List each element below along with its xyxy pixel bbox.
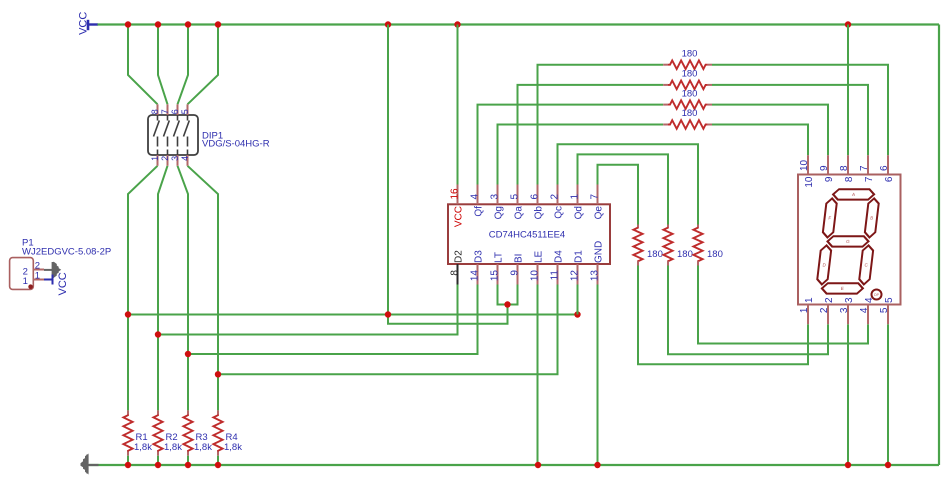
P1 origin dot [28,284,33,289]
svg-text:1: 1 [799,307,810,313]
wire bottom ground rail [89,464,939,466]
svg-text:7: 7 [160,109,170,114]
svg-text:2: 2 [824,297,835,303]
wire IC pin Qa to resistor row2 [518,85,664,185]
svg-text:Qa: Qa [514,206,525,220]
junction node B (158,334.5) [155,331,161,337]
wire P1 pin1 to VCC flag [44,279,53,281]
svg-text:2: 2 [160,156,170,161]
display segments A-G [816,189,881,293]
resistor R7 180 (vertical) [693,225,702,266]
svg-text:Qe: Qe [594,206,605,220]
svg-text:180: 180 [682,69,698,80]
svg-text:1: 1 [23,276,28,287]
svg-text:7: 7 [590,194,601,200]
junction on VCC rail x=218 [215,21,221,27]
wire IC pin LT down [498,284,508,304]
svg-text:3: 3 [844,297,855,303]
wire resistor row 1 to display pin [712,65,888,156]
wire IC pin Qe to resistor R5 top [598,165,639,225]
wire display pin 3 to ground rail [847,324,849,465]
svg-text:16: 16 [450,188,461,200]
junction on ground rail x=597.5 [594,462,600,468]
wire net D3 row (y=354) node x=188 to IC pin D3 [188,284,478,354]
svg-text:11: 11 [550,270,561,281]
svg-text:14: 14 [470,270,481,282]
svg-text:6: 6 [879,165,890,171]
7-segment display U2 [798,155,901,324]
junction on ground rail x=538 [535,462,541,468]
svg-text:VDG/S-04HG-R: VDG/S-04HG-R [202,138,270,149]
svg-text:1,8k: 1,8k [134,442,152,453]
svg-text:180: 180 [707,249,723,260]
svg-text:1,8k: 1,8k [194,442,212,453]
wire IC pin Qb to resistor row1 [538,65,664,185]
svg-text:5: 5 [884,297,895,303]
wire DIP1 pin 5 to VCC rail [188,25,219,105]
junction on ground rail x=218 [215,462,221,468]
svg-text:4: 4 [859,307,870,313]
wire net D2 row (y=334.5) node x=158 to IC pin D2 [158,285,458,335]
display DP circle [872,290,882,300]
junction on ground rail x=188 [185,462,191,468]
svg-text:6: 6 [884,176,895,182]
svg-text:180: 180 [677,249,693,260]
svg-text:8: 8 [450,270,461,276]
junction on ground rail x=888 [885,462,891,468]
wire resistor row 4 to display pin [712,125,808,156]
resistor R6 180 (vertical) [663,225,672,266]
svg-text:5: 5 [180,109,190,114]
svg-text:D4: D4 [554,250,565,263]
junction node D (218,374.3) [215,371,221,377]
junction node C (188,354) [185,351,191,357]
wire DIP1 pin 4 down to node column x=218 [188,166,219,411]
svg-text:VCC: VCC [454,206,465,227]
connector P1 WJ2EDGVC-5.08-2P [10,258,44,290]
wire IC pin D1 down to D1 row [577,284,579,314]
svg-text:VCC: VCC [57,272,69,295]
svg-text:D3: D3 [474,250,485,263]
svg-text:1: 1 [804,297,815,303]
svg-text:BI: BI [514,254,525,263]
ground symbol (bottom-left) [81,455,99,474]
svg-text:180: 180 [647,249,663,260]
resistor R4h 180 (row 4) [663,120,712,129]
svg-text:WJ2EDGVC-5.08-2P: WJ2EDGVC-5.08-2P [22,247,111,258]
wire IC pin Qg to resistor row4 [498,125,664,185]
svg-text:2: 2 [819,307,830,313]
junction node (388,314.5) [385,311,391,317]
wire IC pin BI down [508,284,518,304]
svg-text:GND: GND [594,241,605,263]
svg-text:10: 10 [799,159,810,171]
svg-text:E: E [841,286,845,291]
svg-text:180: 180 [682,108,698,119]
junction on VCC rail x=848 [845,21,851,27]
junction node A (128,314.5) [125,311,131,317]
wire VCC top rail [98,23,940,25]
svg-text:2: 2 [550,194,561,200]
op-amp U1 IC CD74HC4511EE4 [448,185,610,285]
svg-text:Qc: Qc [554,206,565,219]
resistor R2h 180 (row 2) [663,81,712,90]
ground symbol at P1 pin 2 [53,262,61,278]
svg-text:4: 4 [180,156,190,161]
svg-text:9: 9 [824,176,835,182]
svg-text:D2: D2 [454,250,465,263]
svg-text:8: 8 [839,165,850,171]
svg-text:9: 9 [819,165,830,171]
junction on VCC rail x=457.5 [454,21,460,27]
wire DIP1 pin 1 down to node column x=128 [128,166,158,411]
svg-text:LT: LT [494,252,505,263]
junction on VCC rail x=128 [125,21,131,27]
power flag VCC (top-left) [78,12,99,35]
resistor R2 1,8k [153,410,162,465]
svg-text:3: 3 [839,307,850,313]
svg-text:8: 8 [844,176,855,182]
wire DIP1 pin 7 to VCC rail [158,25,168,105]
svg-text:180: 180 [682,88,698,99]
svg-text:D1: D1 [574,250,585,263]
svg-text:1: 1 [150,156,160,161]
wire VCC branch to LT/BI junction [388,305,508,324]
wire right vertical rail [938,25,940,466]
svg-text:A: A [852,192,856,197]
junction on ground rail x=158 [155,462,161,468]
junction node LT/BI [504,301,510,307]
svg-text:Qb: Qb [534,206,545,220]
svg-text:6: 6 [530,194,541,200]
junction on ground rail x=848 [845,462,851,468]
svg-text:5: 5 [879,307,890,313]
svg-text:8: 8 [150,109,160,114]
svg-text:3: 3 [490,194,501,200]
DIP switch DIP1 VDG/S-04HG-R [148,104,198,166]
wire IC pin Qc to resistor R7 top [558,144,699,224]
wire IC pin LE to ground rail [537,284,539,465]
wire R6 bottom to display pin 2 [668,266,828,355]
svg-text:VCC: VCC [78,12,90,35]
wire resistor row 2 to display pin [712,85,868,155]
svg-text:4: 4 [470,194,481,200]
wire IC pin VCC(16) to rail [457,25,459,185]
svg-text:180: 180 [682,48,698,59]
junction on VCC rail x=388 [385,21,391,27]
power flag VCC at P1 pin 1 [53,272,70,295]
wire R7 bottom to display pin 4 [698,266,868,344]
wire IC pin Qf to resistor row3 [478,105,664,185]
svg-text:6: 6 [170,109,180,114]
svg-text:DP: DP [874,293,880,297]
svg-text:12: 12 [570,270,581,282]
wire DIP1 pin 6 to VCC rail [178,25,189,105]
svg-text:15: 15 [490,270,501,282]
wire IC pin Qd to resistor R6 top [578,154,669,224]
wire resistor row 3 to display pin [712,105,828,156]
wire net D1 row (y=314.5) from node x=128 to IC pin D1 [128,314,578,316]
junction node D1 (577.5,314.5) [574,311,580,317]
svg-text:1: 1 [570,194,581,200]
svg-text:1: 1 [35,271,40,282]
svg-text:13: 13 [590,270,601,282]
junction on VCC rail x=158 [155,21,161,27]
svg-text:5: 5 [510,194,521,200]
wire VCC branch x=388 from rail to D1 row [387,25,389,315]
svg-text:3: 3 [170,156,180,161]
resistor R1h 180 (row 1) [663,60,712,69]
wire DIP1 pin 8 to VCC rail [128,25,158,105]
resistor R3 1,8k [183,410,192,465]
svg-text:7: 7 [859,165,870,171]
svg-text:B: B [870,216,874,221]
svg-text:LE: LE [534,250,545,263]
wire display pin 5 to ground rail [887,324,889,465]
wire P1 pin2 to ground [44,269,53,271]
svg-text:10: 10 [530,270,541,282]
resistor R3h 180 (row 3) [663,100,712,109]
svg-text:7: 7 [864,176,875,182]
junction on VCC rail x=188 [185,21,191,27]
resistor R4 1,8k [213,410,222,465]
svg-text:Qd: Qd [574,206,585,219]
wire DIP1 pin 2 down to node column x=158 [158,166,168,411]
junction on ground rail x=128 [125,462,131,468]
wire net D4 row (y=374.3) node x=218 to IC pin D4 [218,284,558,374]
svg-text:10: 10 [804,176,815,188]
wire IC pin GND to ground rail [597,284,599,465]
svg-text:1,8k: 1,8k [164,442,182,453]
resistor R5 180 (vertical) [633,225,642,266]
svg-text:Qf: Qf [474,206,485,217]
svg-text:1,8k: 1,8k [224,442,242,453]
svg-text:9: 9 [510,270,521,276]
wire R5 bottom to display pin 1 [638,266,808,365]
wire DIP1 pin 3 down to node column x=188 [178,166,189,411]
svg-text:CD74HC4511EE4: CD74HC4511EE4 [489,230,565,241]
resistor R1 1,8k [123,410,132,465]
svg-text:Qg: Qg [494,206,505,219]
wire display pin 8 to VCC rail [847,25,849,156]
